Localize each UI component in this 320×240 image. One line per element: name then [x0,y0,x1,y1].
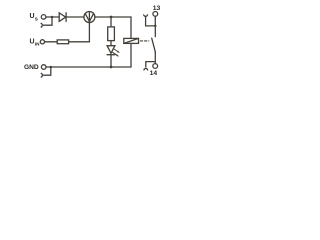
wire LED branch vertical top [110,17,112,27]
wire contact fixed side [154,16,156,36]
label GND [24,64,39,71]
contact moving arm (NO contact) [152,38,156,52]
wire hook GND to bus [44,67,51,75]
terminal 13 socket circle [153,12,158,17]
svg-text:IN: IN [35,42,40,47]
terminal Us plug hook [41,23,42,27]
terminal Us socket circle [41,15,46,20]
terminal Uin socket circle [40,40,44,44]
current source U1 (circle with down arrow) [84,12,95,23]
mechanical link (dashed) [140,40,149,42]
wire resistor R2 to LED [110,41,112,46]
resistor R1 [57,40,68,44]
terminal GND socket circle [41,65,46,70]
diode D1 (polarity protection) [59,13,65,22]
label Uin [30,39,41,47]
wire branch to hook 14 [146,62,156,68]
wire current source to coil branch [95,16,131,18]
label 14 [150,70,158,77]
LED indicator [107,46,115,54]
label Us [30,13,38,22]
wire Us bus to diode [46,16,59,18]
svg-text:GND: GND [24,64,39,71]
wire diode to current source [66,16,84,18]
wire Uin to resistor [45,41,58,43]
wire GND bus [46,66,131,68]
resistor R2 [108,27,115,41]
wire resistor to current source tap [69,23,90,42]
LED emission arrows [113,49,118,52]
svg-text:14: 14 [150,70,158,77]
terminal 13 plug hook [144,15,148,16]
terminal 14 socket circle [153,64,158,69]
label 13 [153,5,161,12]
svg-text:s: s [35,17,38,23]
node junction GND [50,66,53,69]
terminal GND plug hook [41,73,42,77]
wire contact to terminal 14 [154,52,156,64]
node junction LED branch [110,16,113,19]
node junction Us [51,16,54,19]
wire coil branch down [130,17,132,38]
relay coil K1 [124,38,139,43]
wire hook Us to bus [44,17,53,25]
wire LED to GND bus [110,55,112,67]
wire hook 13 to contact [146,17,156,26]
node junction 13 [154,25,157,28]
svg-text:13: 13 [153,5,161,12]
terminal 14 plug hook [144,69,148,70]
svg-text:U: U [30,39,35,46]
node junction LED-GND [110,66,113,69]
svg-text:U: U [30,13,35,20]
wire coil to GND bus [130,43,132,67]
